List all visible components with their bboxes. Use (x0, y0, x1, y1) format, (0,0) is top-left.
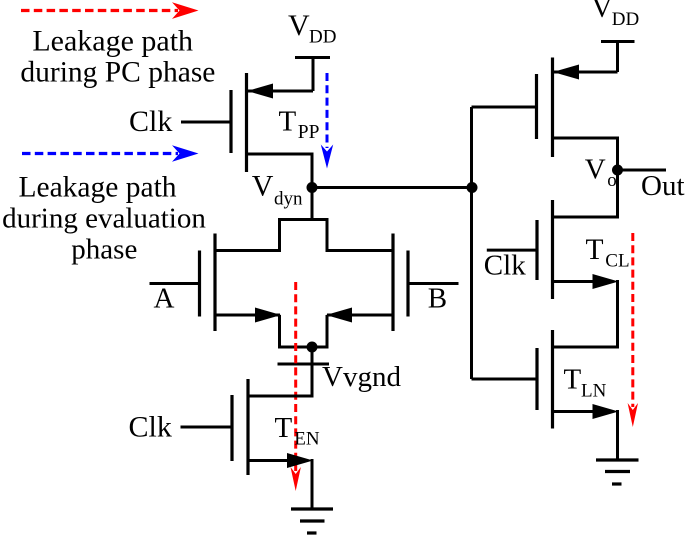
red dashed arrow (right leakage path) (628, 233, 638, 427)
wire Vdyn to pulldown pair (278, 188, 327, 253)
label: Leakage path during evaluation phase (2, 171, 206, 265)
virtual ground bar (278, 363, 330, 366)
svg-text:V: V (592, 0, 613, 24)
transistor P2 (right PMOS) (472, 58, 618, 219)
label: Leakage path during PC phase (20, 24, 215, 88)
wire Vdyn bus (312, 186, 472, 189)
wire sources to Vvgnd (278, 315, 329, 398)
transistor TCL (NMOS) (487, 200, 618, 349)
svg-text:DD: DD (309, 27, 336, 48)
ground (left) (291, 509, 333, 533)
label Vo (585, 154, 617, 191)
svg-text:A: A (154, 283, 175, 315)
svg-text:PP: PP (298, 122, 320, 143)
red dashed leakage arrow (PC phase) (21, 2, 199, 19)
label TEN (275, 412, 320, 449)
node (right junction) (467, 182, 478, 193)
transistor B (NMOS) (326, 234, 459, 332)
svg-text:V: V (288, 9, 310, 42)
label VDD right (592, 0, 640, 30)
svg-text:o: o (607, 170, 617, 191)
svg-text:Out: Out (641, 170, 685, 202)
transistor TEN (NMOS) (181, 379, 313, 475)
label TPP (279, 106, 320, 144)
ground (right) (596, 460, 639, 484)
svg-text:T: T (275, 412, 293, 444)
red dashed arrow (left leakage path) (291, 282, 301, 491)
label Vdyn (252, 170, 303, 210)
svg-text:T: T (564, 364, 582, 396)
power VDD (left) (295, 56, 330, 91)
power VDD (right) (601, 40, 635, 72)
blue dashed arrow along TPP (321, 73, 333, 169)
svg-text:Clk: Clk (484, 250, 526, 282)
svg-text:Leakage path: Leakage path (18, 171, 176, 203)
svg-text:Clk: Clk (129, 410, 172, 443)
svg-text:V: V (252, 170, 274, 203)
svg-text:V: V (585, 154, 606, 186)
svg-text:during evaluation: during evaluation (2, 202, 206, 234)
transistor TPP (PMOS) (181, 73, 313, 188)
wire Out (618, 169, 667, 172)
svg-text:Clk: Clk (129, 105, 172, 138)
label TCL (586, 234, 630, 271)
transistor TLN (NMOS) (472, 330, 618, 460)
label TLN (564, 364, 607, 402)
node Vvgnd (307, 342, 318, 353)
node Vo (612, 165, 623, 176)
svg-text:B: B (428, 283, 447, 315)
transistor A (NMOS) (150, 234, 282, 332)
svg-text:EN: EN (294, 429, 320, 450)
svg-text:DD: DD (612, 9, 639, 30)
node Vdyn (307, 182, 318, 193)
svg-text:T: T (586, 234, 604, 266)
svg-text:during PC phase: during PC phase (20, 57, 215, 89)
wire TEN source to ground (311, 459, 314, 509)
blue dashed leakage arrow (evaluation phase) (22, 145, 199, 162)
svg-text:Vvgnd: Vvgnd (322, 361, 401, 393)
label VDD left (288, 9, 336, 48)
svg-text:LN: LN (581, 381, 607, 402)
wire gate bus (left vertical) (470, 107, 473, 379)
svg-text:phase: phase (71, 234, 137, 266)
svg-text:CL: CL (605, 250, 629, 271)
svg-text:dyn: dyn (274, 189, 303, 210)
svg-text:Leakage path: Leakage path (32, 24, 193, 57)
svg-text:T: T (279, 106, 297, 138)
